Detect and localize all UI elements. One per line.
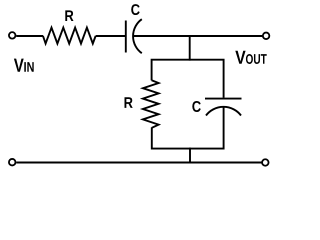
- wire: bottom rail of parallel network with corners up to R and C branches: [152, 107, 224, 149]
- capacitor C (shunt): curved plate: [206, 107, 241, 116]
- label C (shunt capacitor): [192, 101, 201, 112]
- node junction: vertical wire from parallel network down to ground rail: [189, 148, 191, 164]
- label C (series capacitor): [131, 4, 140, 15]
- resistor R (shunt, vertical zigzag): [143, 80, 159, 128]
- wire input to resistor R: [16, 35, 43, 37]
- output terminal (open circle): [263, 33, 270, 40]
- capacitor C (shunt): straight plate: [205, 98, 242, 100]
- label R (shunt resistor): [125, 97, 133, 108]
- capacitor C (series): straight plate: [125, 21, 127, 53]
- node junction: vertical wire from top wire down to parallel network: [189, 35, 191, 61]
- label R (series resistor): [65, 10, 73, 21]
- wire: top rail of parallel network with corners down to R and C branches: [152, 60, 224, 98]
- label VOUT: [235, 51, 245, 64]
- wire resistor to capacitor C: [96, 35, 125, 37]
- ground terminal left (open circle): [9, 159, 16, 166]
- resistor R (series, horizontal zigzag): [43, 28, 96, 44]
- input terminal (open circle): [9, 32, 16, 39]
- capacitor C (series): curved plate: [133, 19, 142, 53]
- ground terminal right (open circle): [262, 159, 269, 166]
- wire capacitor to output terminal: [133, 35, 263, 37]
- label VIN: [14, 59, 24, 72]
- ground return wire (bottom rail): [16, 162, 261, 164]
